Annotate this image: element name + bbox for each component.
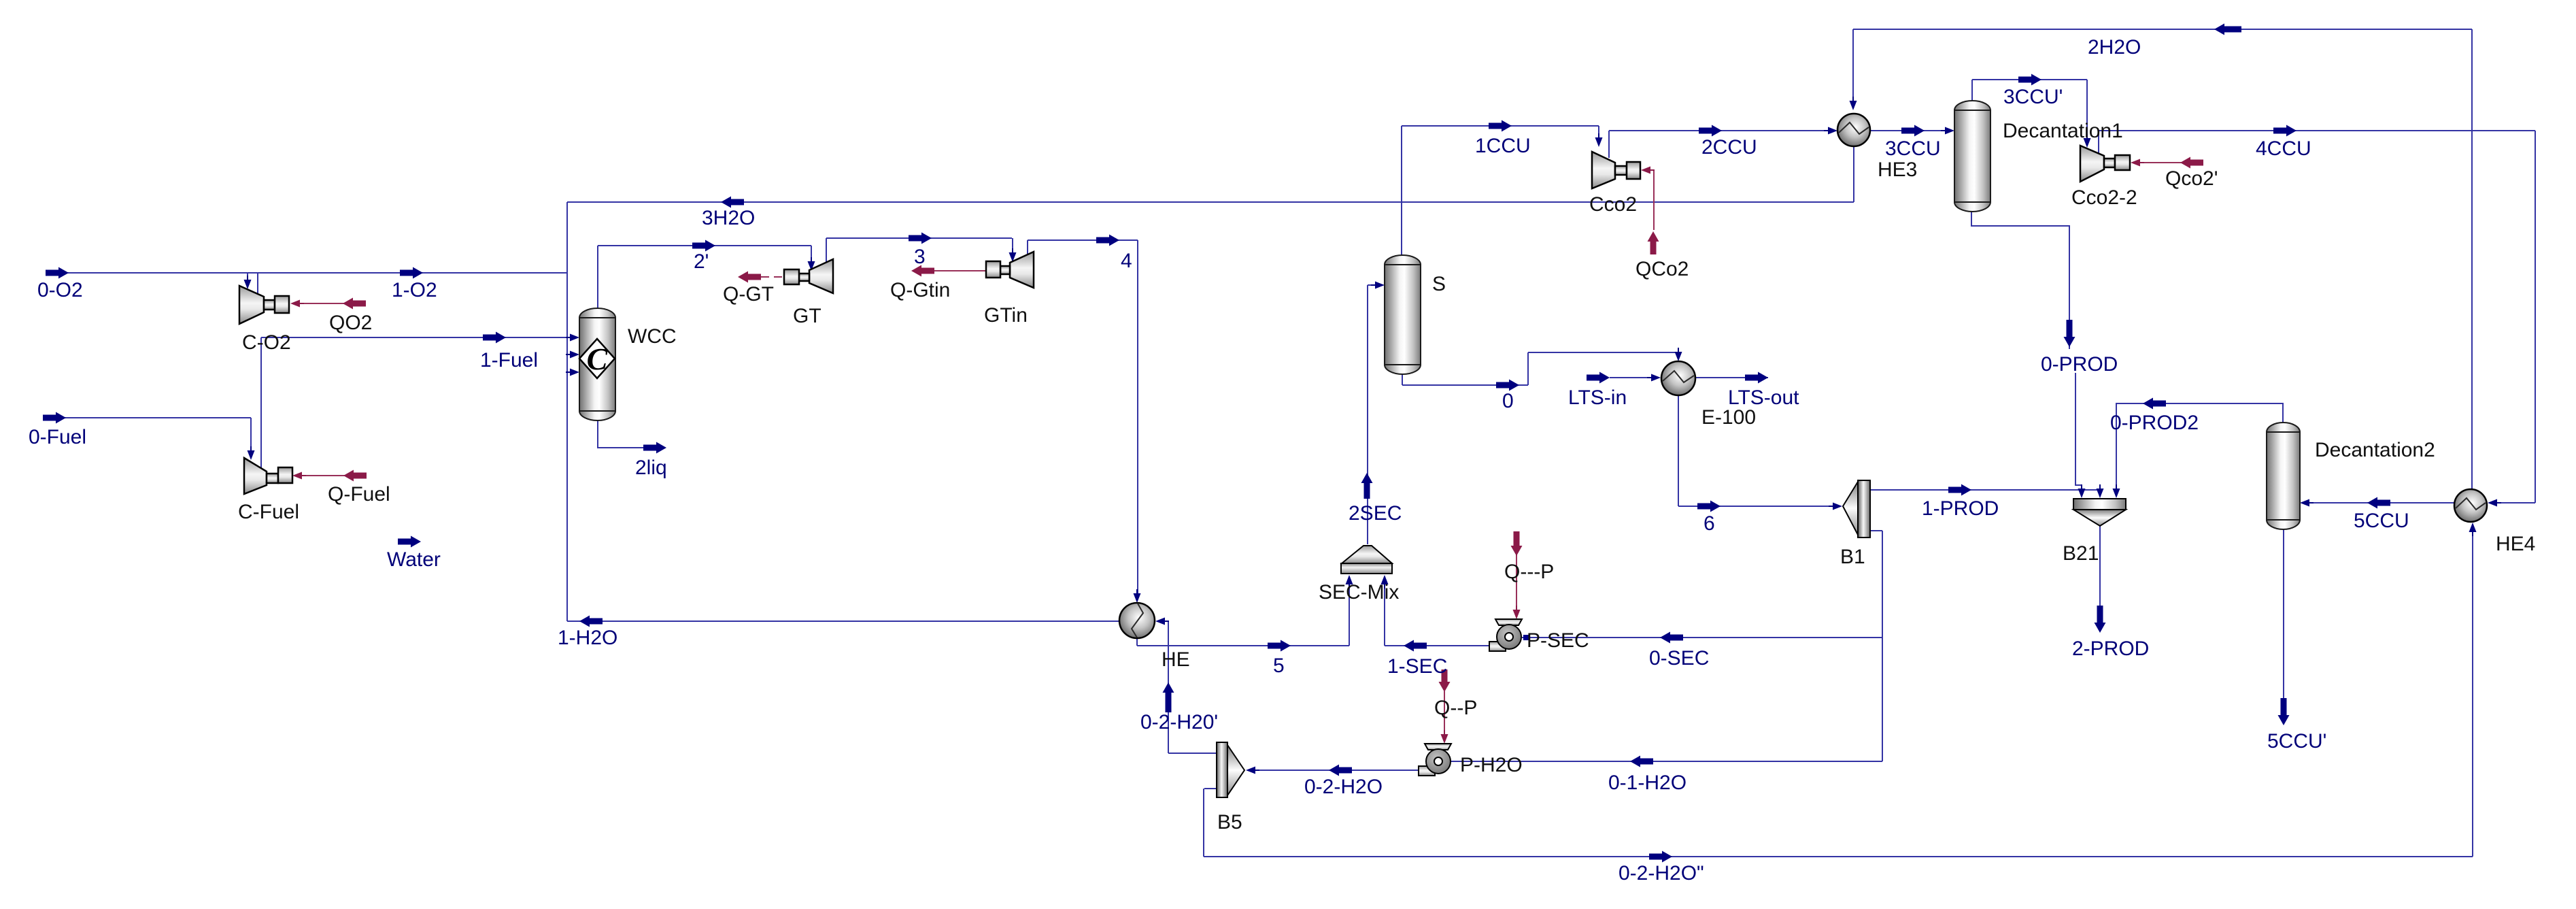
splitter B5 [1217,742,1244,797]
stream arrow 0-PROD2 [2143,398,2166,410]
wire GTin inlet drop [1012,238,1013,252]
svg-text:1-Fuel: 1-Fuel [480,349,538,371]
wire 1-PROD run [1870,489,2100,491]
wire 2-PROD drop [2099,526,2101,609]
node P-SEC outlet square [1523,635,1529,640]
wire 4 run [1028,239,1138,241]
svg-text:Water: Water [387,548,441,571]
wire 6 drop [1678,395,1679,506]
svg-text:1CCU: 1CCU [1475,135,1531,157]
svg-text:GTin: GTin [984,304,1028,327]
wire 0 upper run [1528,352,1678,353]
heat exchanger E-100 [1661,361,1695,395]
stream arrow 6 [1697,501,1721,512]
energy QCo2 line [1649,170,1654,230]
wire 5 run [1137,645,1349,646]
svg-text:SEC-Mix: SEC-Mix [1319,581,1399,604]
energy arrow Qco2' [2180,157,2203,169]
wire 4CCU run [2099,130,2535,131]
wire C-Fuel inlet drop [250,418,252,450]
energy Q---P line [1516,555,1517,610]
svg-text:2CCU: 2CCU [1701,136,1757,159]
wire WCC feed stub 2 [567,354,571,355]
arrow into B21 left [2078,484,2086,498]
arrow into C-O2 [244,276,252,289]
energy arrow Q-GT [738,271,761,283]
wire B1 bottom drop [1882,531,1883,761]
heat exchanger HE3 [1837,114,1870,146]
svg-text:5CCU: 5CCU [2354,510,2409,532]
stream arrow 1-H2O [579,616,603,627]
stream arrow 2H2O [2214,24,2241,35]
heat exchanger HE [1119,603,1155,638]
splitter B1 [1843,480,1870,538]
stream arrow Water [398,536,421,548]
arrow into GT [808,257,815,271]
stream arrow 0-2-H2O [1329,765,1352,776]
svg-text:QO2: QO2 [329,312,372,334]
arrow into Cco2 [1595,133,1603,147]
svg-text:GT: GT [793,305,821,327]
arrow into Qco2' box [2131,159,2144,167]
wire E-100 inlet drop [1678,352,1679,354]
svg-text:2-PROD: 2-PROD [2072,638,2149,660]
svg-text:Cco2: Cco2 [1589,193,1637,216]
stream arrow 1-SEC [1404,640,1427,652]
svg-text:P-H2O: P-H2O [1460,754,1523,776]
wire 2H2O top run [1853,29,2472,30]
stream arrow 0-Fuel [43,412,66,424]
arrow into QCo2 box [1641,167,1655,174]
wire 2CCU run [1609,130,1828,131]
wire 3CCU run [1870,130,1945,131]
stream arrow 0-2-H2O'' [1649,851,1672,863]
compressor C-O2 [239,286,289,324]
svg-text:Q-Fuel: Q-Fuel [328,483,390,506]
stream arrow 3 [909,233,932,244]
svg-text:2SEC: 2SEC [1349,502,1402,525]
energy Q-Gtin line [934,270,986,271]
wire C-Fuel outlet riser [260,337,262,468]
svg-text:0-1-H2O: 0-1-H2O [1608,772,1687,794]
stream arrow 2' [692,240,715,252]
stream arrow 5CCU' [2278,698,2290,725]
stream arrow 0-2-H20' [1163,682,1174,712]
svg-text:4CCU: 4CCU [2256,137,2311,160]
wire 0-2-H2O run [1255,770,1418,771]
wire into HE4 right [2497,502,2535,503]
svg-text:2': 2' [694,250,709,273]
arrow into Decantation2 [2300,499,2314,507]
arrow into B5 [1246,767,1259,774]
wire HE bottom outlet [1136,638,1138,646]
energy Q-Fuel line [301,475,345,476]
wire LTS-in run [1610,377,1658,378]
wire 0-1-H2O run [1451,761,1882,762]
wire HE3 bottom riser [1853,147,1854,202]
svg-text:P-SEC: P-SEC [1527,629,1589,652]
energy arrow Q-Gtin [911,265,934,277]
svg-text:C: C [587,342,609,376]
arrow into HE3 left [1824,127,1837,135]
wire GT outlet riser [826,238,827,264]
wire Decantation1 top riser [1971,80,1973,101]
wire 2liq [598,420,644,448]
arrow into HE top [1134,589,1141,603]
stream arrow LTS-in [1587,372,1610,384]
reactor WCC vessel [579,308,615,420]
wire B5 bottom stub [1204,788,1217,789]
wire 0-O2/1-O2 run [46,272,567,274]
wire GT inlet drop [811,246,812,261]
energy Qco2' line [2140,162,2182,163]
svg-text:LTS-in: LTS-in [1568,386,1627,409]
stream arrow 0-PROD [2064,320,2075,347]
stream arrow 0-O2 [46,267,69,279]
stream arrow 1CCU [1489,120,1512,132]
svg-text:3: 3 [914,246,926,268]
wire Cco2-2 inlet drop [2086,80,2088,138]
wire 3CCU' run [1972,79,2087,80]
mixer SEC-Mix [1341,546,1392,574]
compressor Cco2-2 [2080,146,2130,182]
svg-text:Decantation1: Decantation1 [2003,120,2123,142]
svg-text:1-PROD: 1-PROD [1922,497,1999,520]
energy Q--P line [1444,691,1445,734]
svg-text:Qco2': Qco2' [2165,167,2218,190]
energy Q-GT line [761,276,784,278]
svg-text:E-100: E-100 [1701,406,1756,429]
wire S top riser 1CCU [1401,126,1402,255]
wire 2SEC into S [1368,284,1375,286]
stream arrow 2CCU [1699,125,1722,137]
stream arrow 2SEC [1361,473,1373,499]
compressor Cco2 [1592,152,1640,188]
stream arrow 5CCU [2367,497,2390,509]
stream arrow LTS-out [1745,372,1768,384]
svg-text:0-Fuel: 0-Fuel [29,426,86,448]
svg-text:Cco2-2: Cco2-2 [2071,186,2137,209]
wire 0-PROD path lower [2075,373,2082,487]
arrow into E-100 top [1675,348,1682,361]
stream arrow 0-SEC [1660,632,1683,644]
svg-text:Decantation2: Decantation2 [2315,439,2435,461]
wire 5CCU' drop [2283,529,2284,699]
svg-text:HE: HE [1162,648,1190,671]
wire 1-H2O run [567,621,1120,622]
svg-text:1-H2O: 1-H2O [558,627,617,649]
svg-text:3H2O: 3H2O [702,207,755,229]
arrow into HE right [1155,618,1169,625]
svg-text:B1: B1 [1840,546,1865,568]
wire LTS-out run [1695,377,1768,378]
stream arrow 1-PROD [1948,484,1971,496]
stream arrow 1-O2 [400,267,423,279]
wire 2SEC riser [1367,285,1368,544]
pump P-SEC [1489,619,1522,651]
svg-text:0-O2: 0-O2 [37,279,83,301]
wire WCC feed stub 1 [567,337,571,338]
energy QO2 line [300,303,344,304]
svg-text:QCo2: QCo2 [1636,258,1689,280]
wire C-O2 inlet drop [247,273,248,278]
svg-text:0-2-H2O: 0-2-H2O [1304,776,1383,798]
wire 3H2O long run [567,201,1854,203]
svg-text:1-SEC: 1-SEC [1387,655,1447,678]
energy arrow QO2 [343,298,366,310]
energy arrow Q--P [1439,670,1451,692]
wire Cco2-2 outlet riser [2098,131,2099,156]
wire S bottom stub [1402,374,1403,385]
stream arrow 0-1-H2O [1630,756,1653,767]
energy arrow Q-Fuel [343,470,367,482]
turbine GT [784,259,833,293]
stream arrow 0 [1496,380,1519,391]
wire 1-PROD drop into B21 [2099,490,2101,491]
arrow into P-H2O top [1441,730,1448,744]
wire 1-SEC run [1385,645,1489,646]
arrow into Cco2-2 [2084,134,2091,148]
svg-text:B21: B21 [2063,542,2099,565]
wire 0-2-H20' riser [1168,621,1169,753]
wire 0-SEC run [1522,637,1882,638]
wire SEC-Mix left riser [1349,584,1350,646]
wire WCC feed stub 3 [567,371,571,373]
wire 6 run [1678,506,1833,507]
arrow into B21 mid [2097,484,2104,498]
svg-text:2H2O: 2H2O [2088,36,2141,59]
wire B5 bottom drop [1203,789,1204,857]
svg-text:0-PROD2: 0-PROD2 [2110,412,2199,434]
svg-text:S: S [1432,273,1446,295]
wire 0-Fuel run [44,417,251,418]
wire Cco2 inlet drop [1598,126,1599,137]
wire GTin outlet riser [1027,240,1028,255]
stream arrow 2liq [643,442,666,454]
wire 0-2-H2O'' riser to HE4 [2472,531,2473,857]
wire HE4 top riser [2471,29,2473,489]
wire 2' run [598,245,811,246]
wire 3 run [826,237,1012,239]
stream arrow 3CCU [1901,125,1925,137]
svg-text:0: 0 [1502,390,1514,412]
wire 2H2O drop into HE3 [1852,29,1854,97]
column Decantation2 vessel [2267,423,2300,529]
svg-text:C-O2: C-O2 [242,331,291,354]
arrow into SEC-Mix left [1346,575,1353,589]
arrow into B21 right [2113,484,2120,498]
arrow WCC feed 3 [566,369,579,376]
energy arrow QCo2 [1648,231,1659,254]
stream arrow 4 [1096,235,1119,246]
wire WCC top riser [597,246,598,308]
stream arrow 1-Fuel [483,332,506,344]
arrow into Decantation1 [1941,127,1954,135]
svg-text:Q---P: Q---P [1504,561,1554,583]
wire 4 drop to HE [1137,240,1138,593]
arrow WCC feed 1 [566,334,579,342]
arrow WCC feed 2 [566,351,579,359]
wire left vertical 3H2O/1-H2O [566,202,568,621]
wire 5CCU run [2309,502,2454,503]
stream arrow 2-PROD [2095,606,2106,633]
column Decantation1 vessel [1954,101,1990,212]
mixer B21 [2073,499,2126,526]
compressor C-Fuel [244,458,292,494]
arrow into HE3 top [1850,97,1857,110]
svg-text:6: 6 [1704,512,1715,535]
stream arrow 5 [1268,640,1291,652]
separator S vessel [1385,255,1421,374]
svg-text:5: 5 [1273,655,1285,677]
energy arrow Q---P [1511,531,1523,556]
arrow into E-100 left [1647,374,1661,382]
wire 0-2-H2O'' bottom run [1204,856,2473,857]
stream arrow 3CCU' [2018,74,2041,86]
svg-text:0-2-H2O": 0-2-H2O" [1619,862,1704,885]
wire 0 riser [1527,352,1529,385]
svg-text:3CCU: 3CCU [1885,137,1941,160]
wire B1 bottom stub [1870,530,1882,531]
svg-text:0-2-H20': 0-2-H20' [1140,711,1218,733]
svg-text:5CCU': 5CCU' [2267,730,2326,753]
pump P-H2O [1419,744,1451,776]
turbine GTin [986,252,1034,288]
arrow into HE4 right [2488,499,2501,507]
WCC diamond badge [579,339,615,378]
svg-text:B5: B5 [1217,811,1242,833]
svg-text:0-PROD: 0-PROD [2041,353,2118,376]
arrow into GTin [1009,248,1017,262]
stream arrow 3H2O [721,197,744,208]
arrow into P-SEC top [1513,606,1521,619]
wire C-O2 outlet riser [257,273,258,297]
svg-text:WCC: WCC [628,325,677,348]
arrow into QO2 box [290,300,304,308]
arrow into S [1371,282,1385,289]
wire 1CCU run [1402,125,1599,127]
wire 0-PROD2 path [2116,403,2283,489]
arrow into C-Fuel [248,446,255,460]
svg-text:C-Fuel: C-Fuel [238,501,299,523]
svg-text:4: 4 [1121,250,1132,272]
heat exchanger HE4 [2454,489,2487,522]
svg-text:Q--P: Q--P [1434,697,1477,719]
svg-text:HE4: HE4 [2496,533,2535,555]
arrow into SEC-Mix right [1381,575,1389,589]
svg-text:1-O2: 1-O2 [392,279,437,301]
wire Cco2 outlet riser [1608,131,1610,158]
wire 0 run [1402,384,1528,386]
svg-text:0-SEC: 0-SEC [1649,647,1709,670]
arrow into B1 [1829,503,1842,510]
arrow into Q-Fuel box [292,472,306,480]
svg-text:Q-Gtin: Q-Gtin [890,279,950,301]
wire right edge drop [2535,131,2536,503]
svg-text:Q-GT: Q-GT [723,283,774,305]
wire 0-PROD path upper [1971,212,2069,349]
stream arrow 4CCU [2273,125,2297,137]
svg-text:HE3: HE3 [1878,159,1917,181]
wire SEC-Mix right riser [1384,584,1385,646]
arrow into HE4 bottom [2469,523,2477,536]
svg-text:2liq: 2liq [635,457,667,479]
svg-text:3CCU': 3CCU' [2003,86,2063,108]
wire B5 top stub [1168,753,1217,754]
wire 1-Fuel run [261,337,567,338]
